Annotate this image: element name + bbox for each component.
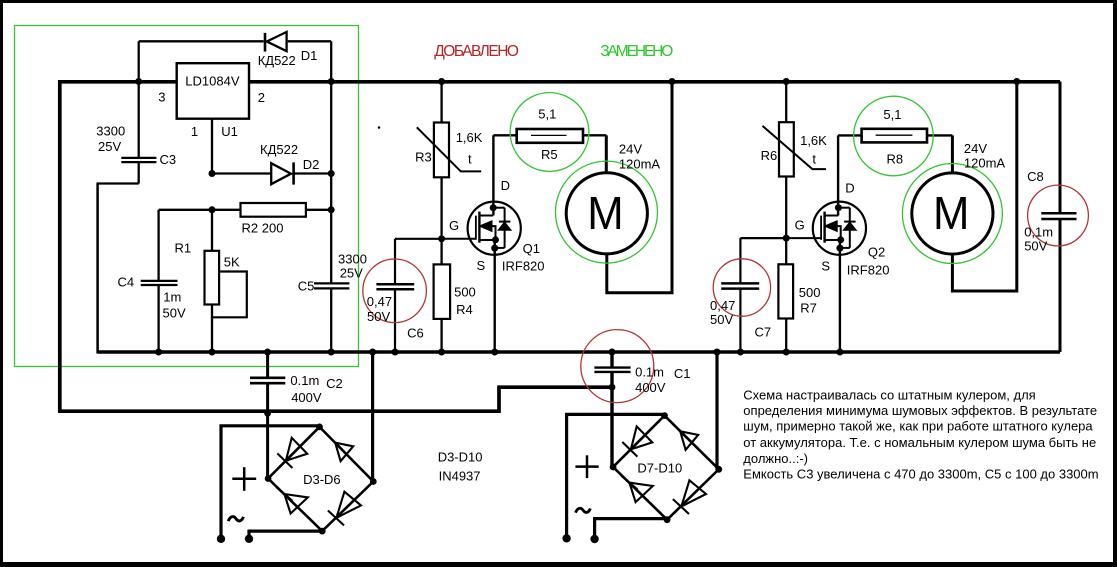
wire C6 link bbox=[395, 238, 442, 240]
svg-text:Схема настраивалась со штатным: Схема настраивалась со штатным кулером, … bbox=[743, 387, 1035, 402]
svg-text:R2 200: R2 200 bbox=[242, 221, 284, 236]
svg-text:0.1m: 0.1m bbox=[290, 373, 319, 388]
svg-text:S: S bbox=[477, 258, 486, 273]
svg-text:ЗАМЕНЕНО: ЗАМЕНЕНО bbox=[600, 43, 673, 60]
wire bridge2 AC input 1 bbox=[567, 414, 665, 538]
svg-text:24V: 24V bbox=[964, 141, 987, 156]
svg-text:IRF820: IRF820 bbox=[847, 263, 890, 278]
svg-text:C8: C8 bbox=[1027, 169, 1044, 184]
svg-text:5,1: 5,1 bbox=[883, 107, 901, 122]
svg-text:t: t bbox=[812, 152, 816, 167]
svg-text:t: t bbox=[468, 151, 472, 166]
resistor R2 bbox=[241, 203, 306, 217]
capacitor C2 bbox=[250, 378, 285, 383]
svg-text:D3-D10: D3-D10 bbox=[438, 450, 483, 465]
wire R6 bottom to gate node bbox=[785, 177, 787, 265]
svg-text:C5: C5 bbox=[298, 278, 315, 293]
wire left vertical rail bbox=[58, 80, 62, 413]
resistor R4 bbox=[434, 264, 451, 319]
wire R8 to motor M2 bbox=[927, 134, 952, 136]
svg-text:Q1: Q1 bbox=[523, 241, 540, 256]
wire bridge1 negative riser bbox=[371, 352, 374, 482]
svg-text:R1: R1 bbox=[175, 240, 192, 255]
resistor R1 (5K trimmer) bbox=[205, 251, 220, 305]
wire bridge1 AC input 1 bbox=[221, 426, 320, 538]
svg-text:0.1m: 0.1m bbox=[635, 364, 664, 379]
wire R7 bottom bbox=[785, 319, 787, 353]
svg-text:определения минимума шумовых э: определения минимума шумовых эффектов. В… bbox=[743, 403, 1097, 418]
svg-text:0,47: 0,47 bbox=[367, 294, 392, 309]
svg-text:Q2: Q2 bbox=[868, 244, 885, 259]
wire R5 to motor M1 bbox=[583, 134, 606, 136]
node D2 row junctions bbox=[209, 170, 216, 177]
svg-text:должно..:-): должно..:-) bbox=[743, 451, 808, 466]
svg-text:3: 3 bbox=[158, 89, 165, 104]
diode D5 (bridge1 bottom-left) bbox=[276, 487, 308, 513]
svg-text:U1: U1 bbox=[221, 124, 238, 139]
motor M2 bbox=[912, 173, 993, 254]
green marker circle R8 bbox=[854, 96, 934, 176]
node bridge2 corners bbox=[661, 412, 668, 419]
green marker circle R5 bbox=[510, 93, 589, 172]
wire Q1 gate bbox=[442, 238, 476, 240]
wire right vertical rail with C8 gap bbox=[1059, 82, 1062, 214]
transistor Q2 IRF820 bbox=[813, 202, 866, 255]
svg-text:120mA: 120mA bbox=[964, 156, 1006, 171]
node ground bus junctions bbox=[155, 349, 162, 356]
wire C2 vertical bbox=[266, 352, 269, 377]
svg-text:25V: 25V bbox=[98, 139, 121, 154]
bridge rectifier D3-D6 diamond bbox=[268, 427, 373, 531]
svg-text:1: 1 bbox=[191, 124, 198, 139]
svg-text:C6: C6 bbox=[407, 325, 424, 340]
svg-text:D: D bbox=[845, 181, 854, 196]
wire bottom return rail bbox=[58, 387, 612, 411]
svg-text:D3-D6: D3-D6 bbox=[303, 472, 341, 487]
svg-text:120mA: 120mA bbox=[619, 157, 661, 172]
svg-text:Емкость С3 увеличена с 470 до: Емкость С3 увеличена с 470 до 3300m, С5 … bbox=[743, 466, 1098, 481]
svg-text:D2: D2 bbox=[303, 157, 320, 172]
svg-text:0,1m: 0,1m bbox=[1024, 224, 1053, 239]
resistor R6 (1,6K thermistor) bbox=[779, 122, 794, 176]
diode D6 (bridge1 bottom-right) bbox=[328, 492, 361, 526]
svg-text:IRF820: IRF820 bbox=[502, 259, 545, 274]
svg-text:50V: 50V bbox=[367, 309, 390, 324]
wire bus left riser to C3 bbox=[96, 184, 99, 354]
wire R3 top bbox=[440, 82, 442, 123]
svg-text:G: G bbox=[449, 218, 459, 233]
capacitor C1 bbox=[594, 368, 630, 372]
svg-text:R8: R8 bbox=[887, 152, 904, 167]
node return rail junctions bbox=[264, 410, 271, 417]
svg-text:R5: R5 bbox=[541, 147, 558, 162]
red marker circle C8 bbox=[1028, 185, 1089, 246]
svg-text:2: 2 bbox=[258, 90, 265, 105]
svg-text:КД522: КД522 bbox=[258, 53, 296, 68]
green marker circle M1 bbox=[556, 161, 658, 263]
motor M1 bbox=[566, 173, 647, 254]
capacitor C7 bbox=[721, 283, 759, 288]
svg-text:LD1084V: LD1084V bbox=[185, 73, 240, 88]
svg-text:R6: R6 bbox=[761, 148, 778, 163]
diode D2 bbox=[271, 162, 293, 184]
svg-text:C7: C7 bbox=[755, 325, 772, 340]
wire ground bus bbox=[98, 350, 1060, 354]
svg-text:M: M bbox=[587, 187, 623, 240]
wire R1 verticals bbox=[211, 210, 213, 251]
svg-text:400V: 400V bbox=[635, 380, 666, 395]
svg-text:M: M bbox=[933, 187, 969, 240]
wire bridge2 AC input 2 bbox=[595, 519, 668, 539]
capacitor C8 bbox=[1041, 213, 1076, 219]
svg-text:шум, примерно такой же, как пр: шум, примерно такой же, как при работе ш… bbox=[743, 419, 1093, 434]
svg-text:400V: 400V bbox=[291, 390, 322, 405]
svg-text:КД522: КД522 bbox=[260, 142, 298, 157]
svg-text:1m: 1m bbox=[163, 290, 181, 305]
svg-text:24V: 24V bbox=[619, 141, 642, 156]
svg-text:1,6K: 1,6K bbox=[456, 130, 483, 145]
wire Q2 source bbox=[839, 240, 841, 352]
svg-text:50V: 50V bbox=[1024, 239, 1047, 254]
svg-text:5,1: 5,1 bbox=[538, 107, 556, 122]
svg-text:3300: 3300 bbox=[338, 251, 367, 266]
bridge rectifier D7-D10 diamond bbox=[613, 416, 719, 520]
svg-text:D: D bbox=[501, 178, 510, 193]
svg-text:G: G bbox=[795, 218, 805, 233]
node bridge1 corners bbox=[316, 424, 323, 431]
wire Q1 source bbox=[494, 240, 496, 352]
note paragraph bbox=[743, 387, 1098, 481]
svg-text:D1: D1 bbox=[301, 48, 318, 63]
wire R3 bottom to gate node bbox=[440, 177, 442, 264]
wire bridge1 AC input 2 bbox=[249, 531, 322, 538]
wire C1 vertical bbox=[610, 352, 613, 367]
transistor Q1 IRF820 bbox=[468, 202, 521, 255]
resistor R5 (fuse-style box) bbox=[517, 129, 583, 143]
wire main top rail bbox=[58, 80, 1060, 84]
capacitor C3 bbox=[121, 158, 156, 162]
svg-text:3300: 3300 bbox=[96, 123, 125, 138]
wire Q2 gate bbox=[786, 237, 821, 239]
capacitor C4 bbox=[141, 281, 178, 285]
wire R1 wiper tap bbox=[213, 272, 247, 318]
resistor R7 bbox=[778, 264, 793, 318]
diode D9 (bridge2 bottom-left) bbox=[621, 476, 653, 502]
diode D7 (bridge2 top-left) bbox=[622, 426, 652, 456]
diode D4 (bridge1 top-right) bbox=[328, 436, 353, 462]
svg-text:D7-D10: D7-D10 bbox=[637, 460, 682, 475]
diode D8 (bridge2 top-right) bbox=[673, 424, 698, 450]
svg-text:C2: C2 bbox=[326, 376, 343, 391]
wire C7 link bbox=[740, 237, 786, 239]
plus symbol bridge2 bbox=[575, 455, 598, 478]
tilde symbol bridge1 bbox=[228, 517, 243, 522]
diode D3 (bridge1 top-left) bbox=[277, 438, 307, 468]
wire R4 bottom bbox=[440, 319, 442, 352]
wire C3 bottom link bbox=[97, 182, 139, 184]
node main rail junctions bbox=[135, 78, 142, 85]
svg-text:R3: R3 bbox=[415, 150, 432, 165]
svg-text:C3: C3 bbox=[160, 152, 177, 167]
diode D10 (bridge2 bottom-right) bbox=[673, 480, 706, 514]
plus symbol bridge1 bbox=[232, 467, 256, 491]
svg-text:от аккумулятора. Т.е. с номаль: от аккумулятора. Т.е. с номальным кулеро… bbox=[743, 435, 1096, 450]
resistor R3 (1,6K thermistor) bbox=[434, 123, 449, 178]
red marker circle C7 bbox=[713, 259, 770, 316]
resistor R8 (fuse-style box) bbox=[862, 129, 927, 143]
green highlight rectangle (regulator block) bbox=[15, 26, 359, 367]
svg-text:50V: 50V bbox=[163, 306, 186, 321]
node R2 row junctions bbox=[209, 206, 216, 213]
red marker circle C1 bbox=[581, 330, 654, 403]
wire U1 pin1 bbox=[211, 119, 213, 174]
svg-text:500: 500 bbox=[799, 285, 821, 300]
svg-text:IN4937: IN4937 bbox=[439, 468, 481, 483]
tilde symbol bridge2 bbox=[576, 508, 591, 512]
svg-text:R7: R7 bbox=[800, 301, 817, 316]
diode D1 bbox=[265, 32, 287, 52]
wire D2 row bbox=[212, 172, 271, 174]
wire motor M1 bottom return bbox=[607, 82, 672, 293]
capacitor C6 bbox=[376, 284, 414, 289]
svg-text:5K: 5K bbox=[224, 255, 240, 270]
wire C3 vertical bbox=[138, 41, 140, 157]
svg-text:0,47: 0,47 bbox=[710, 298, 735, 313]
wire R6 top bbox=[785, 82, 787, 123]
wire R2 row bbox=[159, 209, 241, 211]
svg-text:S: S bbox=[821, 258, 830, 273]
capacitor C5 bbox=[314, 283, 349, 288]
svg-text:R4: R4 bbox=[456, 302, 473, 317]
wire x331 vertical through C5 bbox=[330, 82, 332, 284]
green marker circle M2 bbox=[902, 164, 1002, 264]
wire D1 top run bbox=[139, 40, 264, 42]
ic U1 LD1084V box bbox=[177, 63, 249, 118]
node AC terminals bbox=[217, 535, 225, 543]
wire motor M2 bottom return bbox=[952, 82, 1016, 292]
wire Q2 drain bbox=[837, 135, 839, 215]
wire bridge2 negative riser bbox=[715, 352, 718, 469]
svg-text:50V: 50V bbox=[710, 312, 733, 327]
svg-text:1,6K: 1,6K bbox=[800, 133, 827, 148]
stray ink dot bbox=[378, 126, 381, 129]
svg-text:500: 500 bbox=[454, 285, 476, 300]
wire Q1 drain bbox=[492, 135, 494, 215]
svg-text:ДОБАВЛЕНО: ДОБАВЛЕНО bbox=[434, 43, 519, 60]
red marker circle C6 bbox=[363, 259, 427, 323]
node gate junctions bbox=[438, 235, 445, 242]
svg-text:C1: C1 bbox=[674, 366, 691, 381]
svg-text:25V: 25V bbox=[340, 266, 363, 281]
wire C4 vertical bbox=[157, 210, 159, 280]
svg-text:C4: C4 bbox=[118, 275, 135, 290]
